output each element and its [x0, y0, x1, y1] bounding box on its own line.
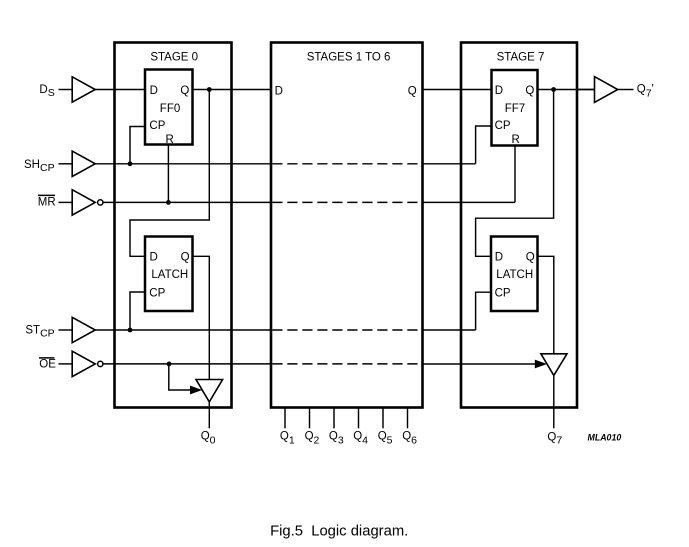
wire FF0 Q feedback to latch 0 D: [130, 90, 209, 257]
svg-text:STCP: STCP: [25, 325, 54, 340]
svg-text:Q3: Q3: [329, 431, 344, 447]
wire STCP stages to stage 7: [423, 329, 476, 331]
output buffer stage 0 (3-state, down): [196, 380, 223, 402]
svg-text:R: R: [512, 134, 520, 146]
svg-text:MR: MR: [38, 197, 56, 209]
wire Q4 stub: [358, 408, 360, 428]
svg-text:FF7: FF7: [505, 103, 525, 115]
wire STCP dashed stages 1-6: [272, 329, 421, 331]
svg-text:FF0: FF0: [160, 103, 180, 115]
wire DS buffer to FF0 D: [95, 89, 145, 91]
wire stage 7 edge to Q7' buffer: [577, 89, 595, 91]
svg-text:STAGE 0: STAGE 0: [150, 51, 198, 63]
wire MR dashed stages 1-6: [272, 201, 421, 203]
wire latch 0 CP riser: [130, 292, 145, 330]
label MR overline: [38, 194, 55, 196]
svg-text:Q7': Q7': [637, 84, 654, 100]
buffer OE inverter: [72, 351, 95, 376]
svg-text:CP: CP: [149, 288, 165, 300]
wire Q3 stub: [333, 408, 335, 428]
svg-text:D: D: [495, 252, 503, 264]
wire SHCP label to buffer: [59, 163, 72, 165]
flip-flop FF0 box: [145, 70, 193, 145]
svg-text:D: D: [150, 85, 158, 97]
svg-text:D: D: [275, 85, 283, 97]
wire MR stages to stage 7: [423, 201, 516, 203]
node OE junction stage 0: [167, 362, 172, 367]
wire latch 7 Q to output buffer: [538, 256, 554, 354]
svg-text:Q: Q: [408, 85, 417, 97]
svg-text:DS: DS: [39, 84, 54, 99]
node STCP junction stage 0: [128, 328, 133, 333]
svg-text:Q5: Q5: [378, 431, 393, 447]
svg-text:Q: Q: [181, 252, 190, 264]
wire SHCP buffer across stage 0: [95, 163, 271, 165]
svg-text:STAGE 7: STAGE 7: [497, 51, 545, 63]
wire OE dashed stages 1-6: [272, 363, 421, 365]
svg-text:Q: Q: [526, 252, 535, 264]
wire MR label to buffer: [59, 201, 72, 203]
wire SHCP stages to stage 7: [423, 163, 476, 165]
svg-text:Q: Q: [525, 85, 534, 97]
buffer MR bubble: [98, 200, 103, 205]
svg-text:CP: CP: [149, 120, 165, 132]
stage 0 box: [115, 43, 232, 408]
svg-text:LATCH: LATCH: [496, 269, 533, 281]
svg-text:MLA010: MLA010: [588, 433, 622, 443]
wire OE buffer across stage 0: [103, 363, 271, 365]
svg-text:D: D: [495, 85, 503, 97]
wire Q7' buffer to label: [618, 89, 634, 91]
svg-text:LATCH: LATCH: [151, 269, 188, 281]
wire FF0 R drop: [167, 145, 169, 203]
flip-flop FF7 box: [492, 70, 538, 146]
stage 7 box: [461, 43, 577, 408]
svg-text:STAGES 1 TO 6: STAGES 1 TO 6: [307, 51, 391, 63]
svg-text:Q2: Q2: [305, 431, 320, 447]
svg-text:CP: CP: [495, 120, 511, 132]
buffer OE bubble: [98, 361, 103, 366]
buffer SHCP: [72, 151, 95, 176]
wire FF7 Q feedback to latch 7 D: [476, 90, 554, 257]
wire Q1 stub: [284, 408, 286, 428]
buffer DS: [72, 77, 95, 102]
latch 0 box: [145, 237, 193, 312]
wire FF7 Q output: [538, 89, 595, 91]
wire FF7 R riser: [514, 146, 516, 203]
wire Q0 stub: [208, 402, 210, 428]
buffer STCP: [72, 317, 95, 342]
wire Q5 stub: [382, 408, 384, 428]
output buffer Q7' (right): [595, 77, 618, 103]
wire OE stages to stage 7 buffer: [423, 363, 537, 365]
node FF7 Q junction: [551, 87, 556, 92]
wire Q6 stub: [407, 408, 409, 428]
wire FF7 CP riser: [476, 126, 492, 164]
wire Q7 stub: [553, 375, 555, 428]
svg-text:Q4: Q4: [353, 431, 368, 447]
wire OE label to buffer: [59, 363, 72, 365]
label OE overline: [39, 357, 55, 359]
arrowhead OE stage 0: [190, 386, 202, 395]
svg-text:D: D: [150, 252, 158, 264]
wire FF0 Q output: [193, 89, 272, 91]
svg-text:Q: Q: [180, 85, 189, 97]
svg-text:Fig.5 Logic diagram.: Fig.5 Logic diagram.: [270, 523, 408, 539]
wire OE enable drop stage 0: [169, 364, 192, 390]
stages 1 to 6 box: [271, 43, 423, 408]
latch 7 box: [491, 237, 538, 312]
output buffer stage 7 (3-state, down): [541, 354, 567, 376]
svg-text:Q6: Q6: [402, 431, 417, 447]
node FF0 Q junction: [207, 87, 212, 92]
svg-text:OE: OE: [39, 358, 56, 370]
wire stages Q to FF7 D: [423, 89, 492, 91]
svg-text:Q0: Q0: [201, 431, 216, 447]
arrowhead OE stage 7: [535, 360, 547, 369]
node SHCP junction stage 0: [128, 161, 133, 166]
svg-text:Q7: Q7: [547, 431, 562, 446]
wire STCP buffer across stage 0: [95, 329, 271, 331]
wire Q2 stub: [309, 408, 311, 428]
wire latch 7 CP riser: [476, 292, 491, 330]
svg-text:CP: CP: [495, 288, 511, 300]
wire STCP label to buffer: [59, 329, 72, 331]
svg-text:Q1: Q1: [280, 431, 295, 447]
buffer MR inverter: [72, 190, 95, 215]
svg-text:R: R: [166, 134, 174, 146]
wire MR buffer across stage 0: [103, 201, 271, 203]
wire SHCP dashed stages 1-6: [272, 163, 421, 165]
node MR junction FF0 R: [166, 200, 171, 205]
svg-text:SHCP: SHCP: [24, 159, 55, 174]
wire FF0 CP riser: [130, 127, 145, 164]
wire latch 0 Q to output buffer: [193, 256, 210, 379]
wire DS label to buffer: [59, 89, 72, 91]
